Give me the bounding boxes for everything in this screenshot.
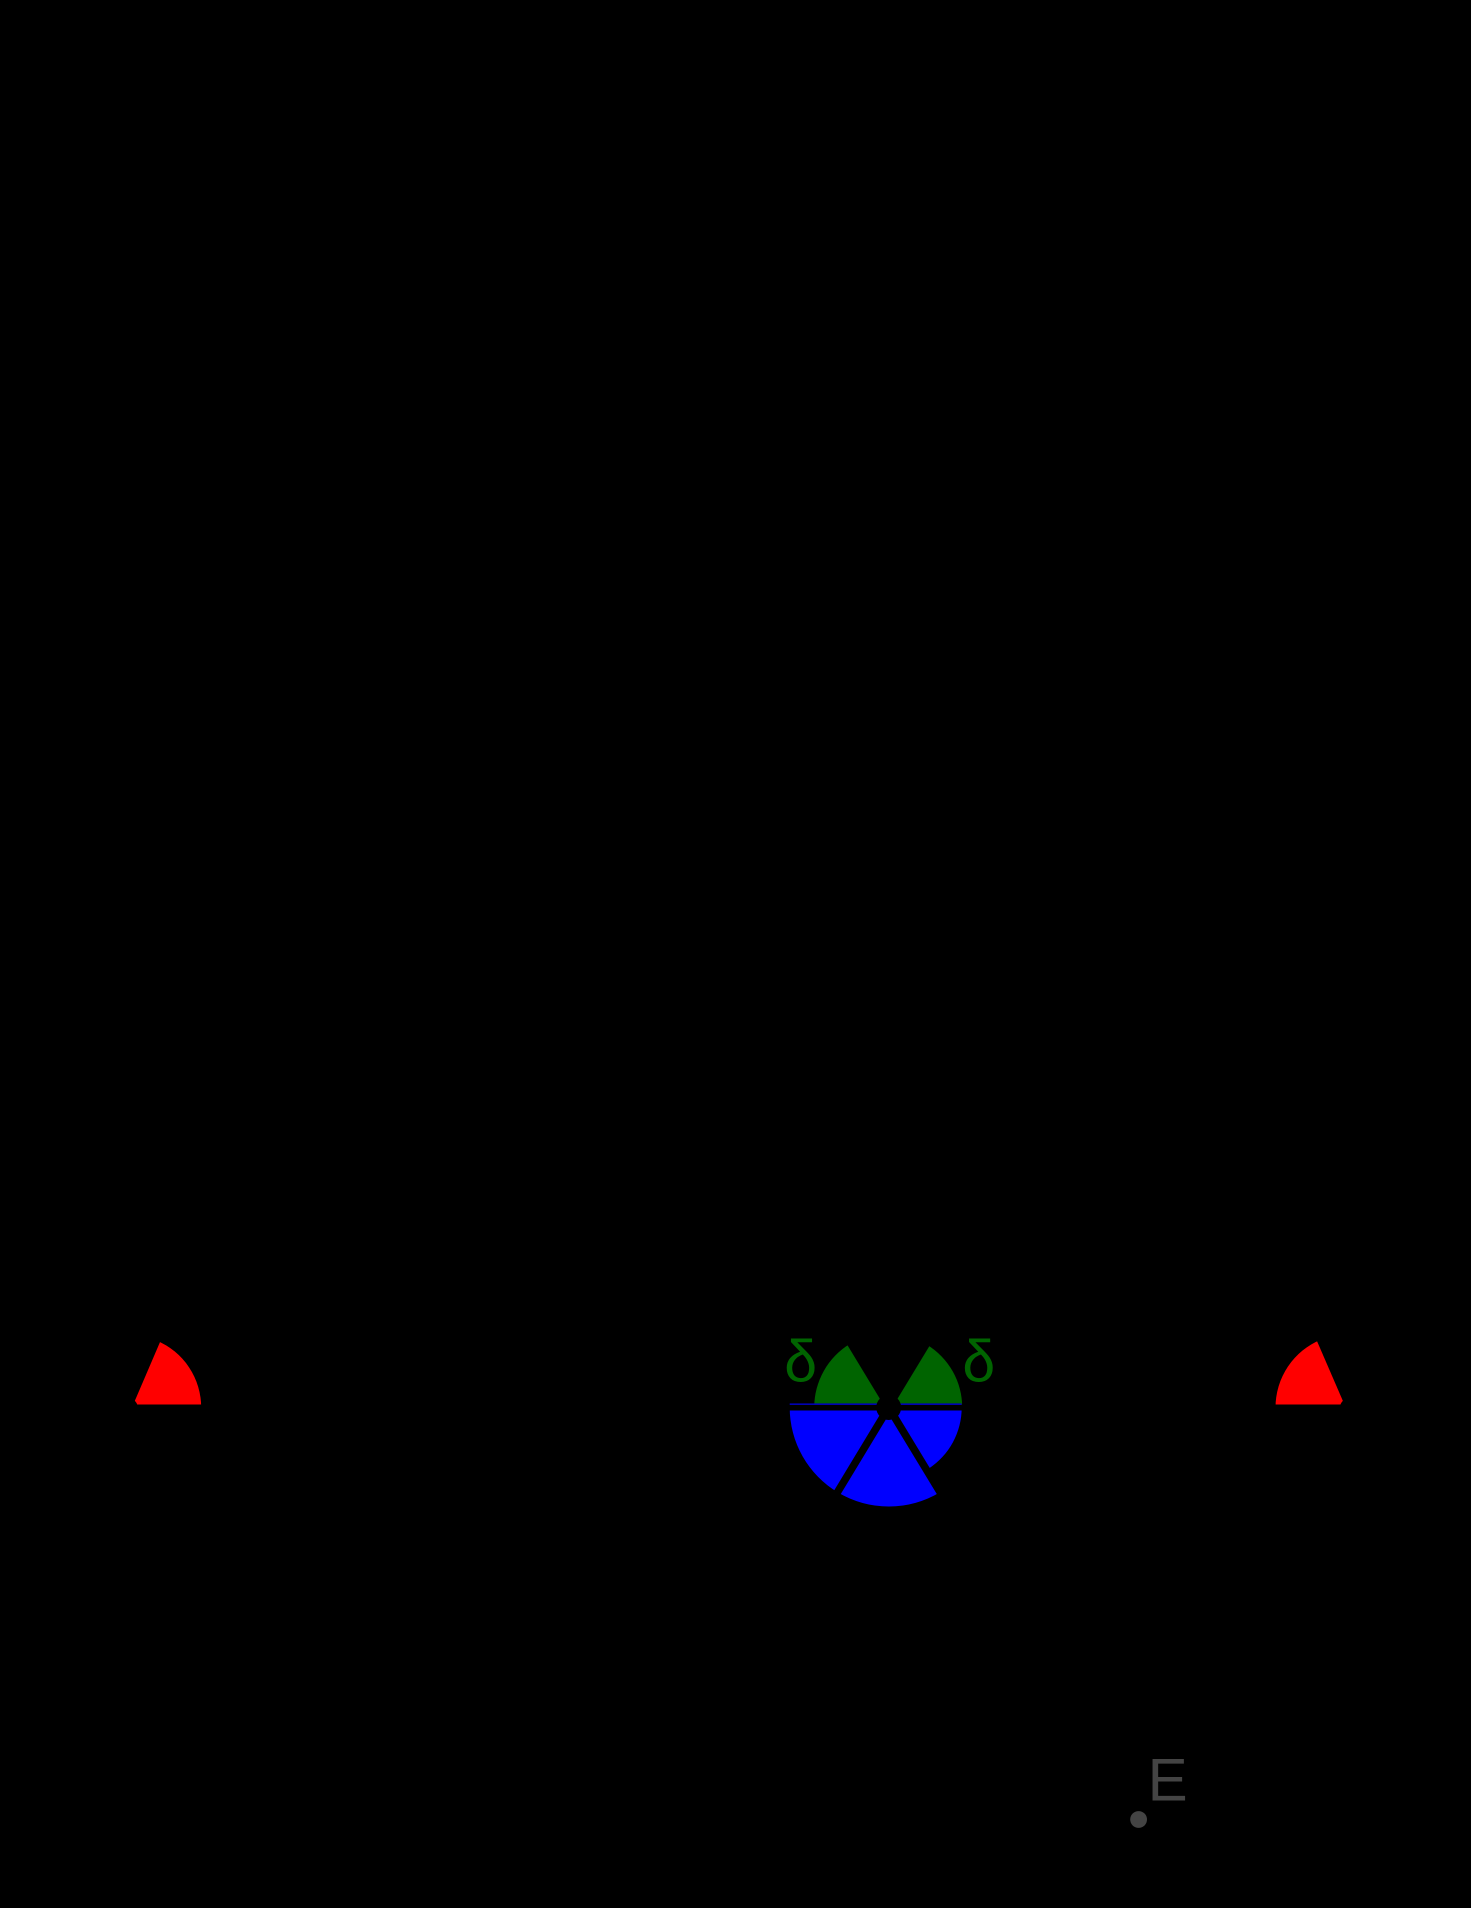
blue angle sector at D (left-bottom) (790, 1408, 889, 1493)
blue angle sector at D (bottom-middle) (838, 1408, 940, 1507)
segment D-E (down-right) (889, 1408, 1139, 1820)
dark blue fringe above base line (blue sector outline) (790, 1403, 962, 1405)
ray from D up-left at 121.2 deg (E-D extended) (423, 638, 889, 1408)
svg-text:δ: δ (784, 1329, 817, 1395)
red angle sector at vertex B (1276, 1340, 1350, 1408)
segment D-F (down-left) (639, 1408, 888, 1820)
red angle sector at vertex A (129, 1341, 202, 1408)
green angle sector delta at D (upper-left) (814, 1344, 889, 1408)
svg-text:E: E (1148, 1747, 1188, 1814)
triangle side B-C (736, 0, 1349, 1408)
point A dot (120, 1399, 138, 1417)
point E dot (1130, 1811, 1147, 1828)
svg-text:δ: δ (962, 1329, 995, 1395)
point D dot (876, 1395, 901, 1420)
triangle side A-C (129, 0, 736, 1408)
ray from D up-right at 58.8 deg (F-D extended) (889, 638, 1355, 1408)
blue angle sector at D (right-bottom, smaller radius) (889, 1408, 962, 1469)
point B dot (1340, 1399, 1358, 1417)
green angle sector delta at D (upper-right) (889, 1345, 963, 1408)
base line through A, D, B (0, 1405, 1471, 1411)
